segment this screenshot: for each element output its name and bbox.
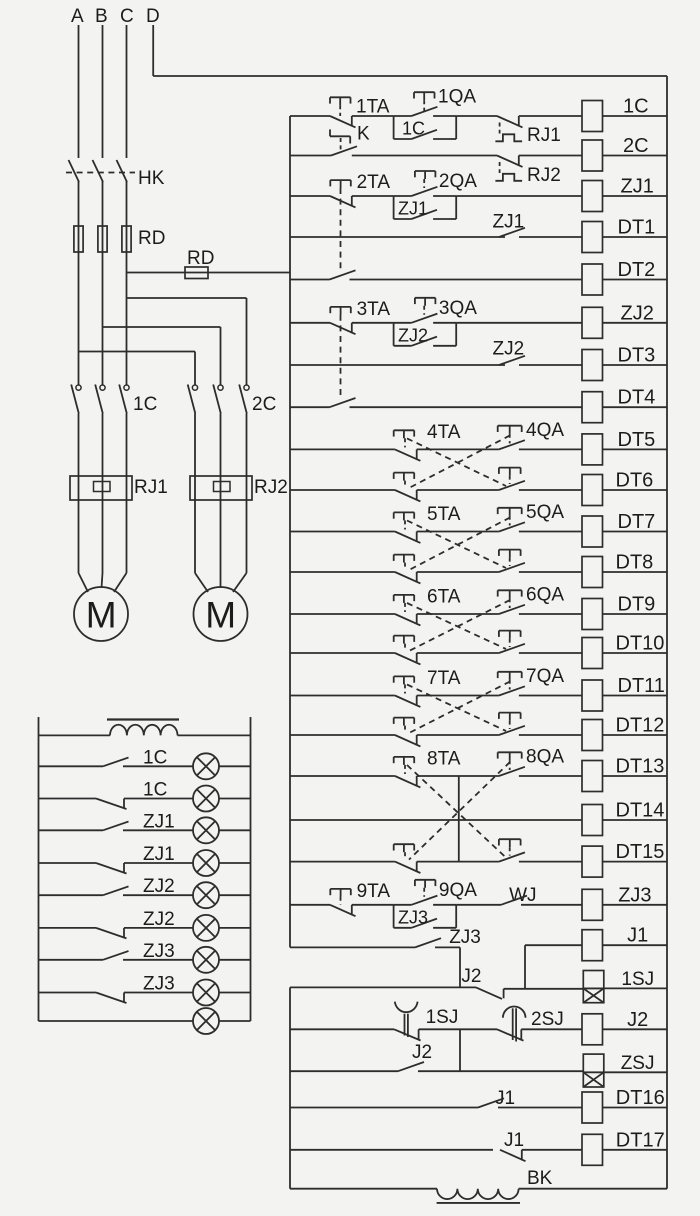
svg-text:RJ1: RJ1 xyxy=(527,125,561,146)
mechanical cross link (dashed X) xyxy=(407,435,510,488)
coil DT6 xyxy=(582,475,603,506)
coil DT17 xyxy=(582,1134,603,1165)
coil ZSJ (time relay) xyxy=(583,1054,604,1072)
svg-text:2TA: 2TA xyxy=(357,172,391,193)
svg-text:1C: 1C xyxy=(133,394,157,415)
svg-text:RJ1: RJ1 xyxy=(134,477,168,498)
inductor core bar xyxy=(107,718,179,720)
svg-text:ZJ2: ZJ2 xyxy=(143,909,175,930)
contact 5QA (NO) xyxy=(499,522,525,531)
contact 3TA (NO, linked) xyxy=(330,398,356,407)
wire coil 2C to right bus xyxy=(603,155,668,157)
wire coil 1C to right bus xyxy=(603,115,668,117)
operator head (linked to 4QA) xyxy=(394,473,415,488)
contact 6TA (NO, linked) xyxy=(499,644,525,653)
svg-text:J1: J1 xyxy=(627,925,648,947)
wire phase B drop xyxy=(102,25,104,158)
contact 6TA (NC) xyxy=(395,614,421,625)
wire between contacts xyxy=(417,775,499,777)
wire lamp to right bus xyxy=(219,829,251,831)
wire rung from bus (6TA row) xyxy=(290,613,395,615)
svg-text:1C: 1C xyxy=(402,119,425,139)
wire lamp to right bus xyxy=(219,992,251,994)
contact 3TA (NC) xyxy=(330,323,356,334)
wire coil 1SJ to right bus xyxy=(604,987,667,989)
svg-text:RD: RD xyxy=(187,248,214,269)
svg-text:J1: J1 xyxy=(495,1088,515,1109)
mechanical cross link (dashed X) xyxy=(407,762,510,860)
wire phase A drop xyxy=(78,25,80,158)
svg-text:J2: J2 xyxy=(627,1009,648,1031)
wire phase C drop xyxy=(126,25,128,158)
contact 8QA (NO) xyxy=(499,767,525,776)
svg-text:C: C xyxy=(120,6,134,27)
wire rung from bus (6QA linked row) xyxy=(290,652,395,654)
wire to coil xyxy=(519,695,582,697)
wire J2 contact to coil ZSJ xyxy=(418,1070,583,1072)
lamp panel bottom wire xyxy=(39,1020,194,1022)
svg-text:ZJ1: ZJ1 xyxy=(143,811,175,832)
contact 2TA (NC) xyxy=(330,196,356,207)
svg-text:2C: 2C xyxy=(623,135,649,157)
contact QA (NO) on main path xyxy=(394,314,457,323)
wire sub ladder bottom xyxy=(290,1188,437,1190)
lamp panel left bus xyxy=(38,717,40,1021)
operator head (linked to 8QA) xyxy=(394,844,415,859)
svg-text:ZJ2: ZJ2 xyxy=(143,876,175,897)
svg-text:ZJ3: ZJ3 xyxy=(143,941,175,962)
svg-text:ZSJ: ZSJ xyxy=(621,1053,655,1074)
operator head 3QA xyxy=(415,298,436,315)
contact 7TA (NO, linked) xyxy=(499,726,525,735)
wire rung from bus (7TA row) xyxy=(290,695,395,697)
wire parallel group verticals xyxy=(394,196,457,219)
svg-text:1SJ: 1SJ xyxy=(621,969,654,990)
operator head 8TA xyxy=(394,757,415,774)
svg-text:J1: J1 xyxy=(504,1130,524,1151)
operator head 9TA xyxy=(330,889,351,897)
wire coil DT14 to right bus xyxy=(603,819,668,821)
wire coil DT1 to right bus xyxy=(603,236,668,238)
mechanical cross link (dashed X) xyxy=(407,682,510,734)
wire to coil ZJ2 xyxy=(456,322,582,324)
contact 7QA (NO) xyxy=(499,686,525,695)
wire B below HK xyxy=(102,181,104,385)
svg-text:5QA: 5QA xyxy=(526,502,564,523)
svg-text:9QA: 9QA xyxy=(439,880,477,901)
coil DT7 xyxy=(582,516,603,547)
wire to coil DT4 xyxy=(350,406,583,408)
operator head 7QA xyxy=(498,672,522,690)
operator head 5QA xyxy=(498,508,522,526)
lamp row 5: contact ZJ2 (NO) xyxy=(39,886,194,895)
coil DT3 xyxy=(582,350,603,381)
wire rung from bus (4QA linked row) xyxy=(290,489,395,491)
svg-text:8TA: 8TA xyxy=(427,749,461,770)
lamp row 3: contact ZJ1 (NO) xyxy=(39,822,194,831)
svg-text:DT1: DT1 xyxy=(618,217,656,239)
svg-text:9TA: 9TA xyxy=(357,881,391,902)
inductor (ballast) on lamp panel xyxy=(110,725,178,736)
wire to coil xyxy=(519,489,582,491)
lamp 4 xyxy=(193,850,219,876)
wire K to RJ2 xyxy=(352,155,497,157)
wire rung DT3 from bus xyxy=(290,364,505,366)
svg-text:DT15: DT15 xyxy=(616,841,665,863)
svg-text:HK: HK xyxy=(138,168,165,189)
fuse RD phase C xyxy=(122,226,131,252)
wire lamp to right bus xyxy=(219,894,251,896)
wire parallel group verticals xyxy=(394,905,457,928)
contact ZJ3 (NO, self hold branch) xyxy=(394,919,457,928)
wire C below HK xyxy=(126,181,128,385)
operator head (linked to 4TA) xyxy=(499,468,521,484)
motor M1 xyxy=(74,587,128,641)
operator head 3TA xyxy=(330,307,351,315)
lamp row 2: contact 1C (NC) xyxy=(39,799,194,810)
wire between contacts xyxy=(417,531,499,533)
operator link 3TA (dashed) xyxy=(340,315,342,398)
wires 2C branch to motor xyxy=(195,414,247,574)
svg-text:ZJ3: ZJ3 xyxy=(618,884,651,906)
svg-text:BK: BK xyxy=(527,1168,553,1189)
svg-text:ZJ2: ZJ2 xyxy=(621,302,654,324)
svg-text:2C: 2C xyxy=(252,394,276,415)
svg-text:1C: 1C xyxy=(143,747,167,768)
wire coil ZJ3 to right bus xyxy=(603,904,668,906)
svg-text:3QA: 3QA xyxy=(439,298,477,319)
svg-text:RD: RD xyxy=(138,228,165,249)
svg-text:1SJ: 1SJ xyxy=(426,1007,459,1028)
wire to coil xyxy=(519,775,582,777)
switch HK mechanical link (dashed) xyxy=(66,172,135,174)
wire between contacts xyxy=(417,734,499,736)
operator head 7TA xyxy=(394,676,415,693)
svg-text:WJ: WJ xyxy=(509,885,536,906)
coil DT12 xyxy=(582,720,603,751)
wire A tap to 2C branch xyxy=(79,351,196,353)
svg-text:DT4: DT4 xyxy=(618,387,656,409)
svg-text:RJ2: RJ2 xyxy=(527,165,561,186)
wire rung 2C from bus xyxy=(290,155,331,157)
svg-text:1TA: 1TA xyxy=(356,97,390,118)
wire 2TA to parallel group xyxy=(352,195,394,197)
svg-text:1C: 1C xyxy=(143,780,167,801)
wire riser to coil J1 xyxy=(524,945,526,989)
operator head 4TA xyxy=(394,430,415,447)
wire sub ladder top xyxy=(290,986,476,988)
svg-text:A: A xyxy=(71,6,84,27)
wire coil ZJ2 to right bus xyxy=(603,322,668,324)
wire between contacts xyxy=(417,448,499,450)
contact 4QA (NC, linked) xyxy=(395,490,421,501)
wire rung DT14 from bus xyxy=(290,819,582,821)
operator head 8QA xyxy=(498,752,522,770)
contact WJ (NO) xyxy=(501,896,527,905)
operator head (linked to 5TA) xyxy=(499,550,521,566)
contact 7QA (NC, linked) xyxy=(395,735,421,746)
wire coil DT7 to right bus xyxy=(603,531,668,533)
svg-text:ZJ3: ZJ3 xyxy=(398,907,428,927)
wire rung from bus (4TA row) xyxy=(290,448,395,450)
wire coil DT6 to right bus xyxy=(603,489,668,491)
coil ZJ1 xyxy=(582,181,603,212)
svg-text:ZJ3: ZJ3 xyxy=(449,927,481,948)
wire rung DT4 from bus xyxy=(290,406,330,408)
lamp 3 xyxy=(193,817,219,843)
wire rung J2 from sub bus xyxy=(290,1028,394,1030)
wire coil J2 to right bus xyxy=(603,1028,668,1030)
wire between contacts xyxy=(417,489,499,491)
wire rung ZJ3 from bus xyxy=(290,904,330,906)
lamp 1 xyxy=(193,753,219,779)
transformer BK core bar xyxy=(437,1202,520,1204)
fuse RD phase B xyxy=(98,226,107,252)
coil DT1 xyxy=(582,222,603,253)
contact 2SJ (delayed) xyxy=(497,1007,526,1042)
wire between contacts xyxy=(417,695,499,697)
svg-text:5TA: 5TA xyxy=(427,504,461,525)
wire rung from bus (7QA linked row) xyxy=(290,734,395,736)
operator head 6QA xyxy=(498,590,522,608)
wire coil DT11 to right bus xyxy=(603,695,668,697)
wire parallel group verticals xyxy=(394,323,457,346)
wire to coil DT1 xyxy=(519,236,582,238)
wire coil DT12 to right bus xyxy=(603,734,668,736)
motor M2 leads xyxy=(195,573,208,592)
coil DT5 xyxy=(582,434,603,465)
operator head (linked to 7QA) xyxy=(394,718,415,733)
contact QA (NO) on main path xyxy=(394,187,457,196)
contact 6QA (NC, linked) xyxy=(395,653,421,664)
svg-text:6TA: 6TA xyxy=(427,587,461,608)
svg-text:DT6: DT6 xyxy=(616,470,654,492)
wire lamp to right bus xyxy=(219,927,251,929)
svg-text:2QA: 2QA xyxy=(439,171,477,192)
operator link 9TA (dashed) xyxy=(340,897,342,905)
wire to coil xyxy=(519,652,582,654)
svg-text:RJ2: RJ2 xyxy=(254,477,288,498)
svg-text:M: M xyxy=(205,595,236,636)
wire rung from bus (8QA linked row) xyxy=(290,861,395,863)
contact 6QA (NO) xyxy=(499,605,525,614)
coil DT16 xyxy=(582,1092,603,1123)
svg-text:DT12: DT12 xyxy=(616,715,665,737)
svg-text:DT7: DT7 xyxy=(618,511,656,533)
contact J2 (NO) xyxy=(398,1062,424,1071)
coil DT4 xyxy=(582,392,603,423)
wire between contacts xyxy=(417,861,499,863)
contact 1C (NO, self hold branch) xyxy=(394,130,457,139)
contact 5QA (NC, linked) xyxy=(395,572,421,583)
wire to coil ZJ1 xyxy=(456,195,582,197)
coil DT2 xyxy=(582,264,603,295)
wire link rung DT13 to DT15 xyxy=(458,776,460,862)
coil ZJ3 xyxy=(582,889,603,920)
contact RJ1 (NC thermal) xyxy=(495,116,522,141)
coil DT15 xyxy=(582,846,603,877)
wire WJ to coil ZJ3 xyxy=(521,904,582,906)
coil 1C xyxy=(582,101,603,132)
contact QA (NO) on main path xyxy=(394,107,457,116)
coil DT9 xyxy=(582,599,603,630)
svg-text:ZJ2: ZJ2 xyxy=(398,325,428,345)
operator head 1TA xyxy=(330,97,351,116)
contact 8QA (NC, linked) xyxy=(395,862,421,873)
lamp 7 xyxy=(193,947,219,973)
wire rung DT2 from bus xyxy=(290,279,330,281)
wire coil J1 to right bus xyxy=(603,944,668,946)
svg-text:ZJ1: ZJ1 xyxy=(143,844,175,865)
svg-text:B: B xyxy=(95,6,108,27)
coil 2C xyxy=(582,140,603,171)
lamp row 6: contact ZJ2 (NC) xyxy=(39,928,194,939)
operator head 1QA xyxy=(414,92,435,111)
wire coil DT8 to right bus xyxy=(603,571,668,573)
coil DT10 xyxy=(582,638,603,669)
wire to coil xyxy=(519,448,582,450)
svg-text:4QA: 4QA xyxy=(526,420,564,441)
wire parallel group verticals xyxy=(394,116,457,139)
contact QA (NO) on main path xyxy=(394,896,457,905)
wire D to right bus (top control wire) xyxy=(153,75,667,77)
wires 1C branch to motor xyxy=(79,414,127,574)
wire coil DT2 to right bus xyxy=(603,279,668,281)
contact 7TA (NC) xyxy=(395,696,421,707)
wire to coil xyxy=(519,531,582,533)
contact ZJ3 (NO) xyxy=(415,938,441,947)
operator head K (two position) xyxy=(330,129,350,152)
svg-text:7TA: 7TA xyxy=(427,668,461,689)
wire coil DT15 to right bus xyxy=(603,861,668,863)
switch HK blades xyxy=(69,160,128,182)
wire rung ZJ1 from bus xyxy=(290,195,330,197)
lamp 8 xyxy=(193,980,219,1006)
svg-text:1C: 1C xyxy=(623,96,649,118)
svg-text:DT11: DT11 xyxy=(618,675,665,697)
wire coil DT10 to right bus xyxy=(603,652,668,654)
coil DT11 xyxy=(582,680,603,711)
svg-text:4TA: 4TA xyxy=(427,422,461,443)
contact 4QA (NO) xyxy=(499,440,525,449)
wire coil ZJ1 to right bus xyxy=(603,195,668,197)
wire coil ZSJ to right bus xyxy=(604,1071,667,1073)
wire drop J2 rung to ZSJ rung xyxy=(459,1029,461,1071)
coil ZJ2 xyxy=(582,307,603,338)
coil DT8 xyxy=(582,557,603,588)
wire ZJ3 contact to drop xyxy=(435,946,460,948)
contactor 1C main contacts xyxy=(71,385,129,414)
lamp panel top wire xyxy=(39,734,111,736)
fuse RD control (horizontal) xyxy=(185,267,208,279)
wire 9TA to parallel group xyxy=(352,904,394,906)
svg-text:DT9: DT9 xyxy=(618,594,656,616)
contact 8TA (NC) xyxy=(395,776,421,787)
contact J2 (NC) xyxy=(476,987,504,999)
contact 1SJ (delayed) xyxy=(394,1002,421,1041)
wire RJ2 to coil 2C xyxy=(519,155,582,157)
wire lamp to right bus xyxy=(219,959,251,961)
lamp 5 xyxy=(193,882,219,908)
svg-text:DT16: DT16 xyxy=(616,1087,665,1109)
contact 8TA (NO, linked) xyxy=(499,852,525,861)
svg-text:M: M xyxy=(86,595,117,636)
contact 5TA (NO, linked) xyxy=(499,563,525,572)
wire RJ1 to coil 1C xyxy=(519,115,582,117)
operator head 2QA xyxy=(415,171,436,188)
control sub left bus xyxy=(289,987,291,1188)
operator head (linked to 5QA) xyxy=(394,555,415,570)
svg-text:ZJ3: ZJ3 xyxy=(143,974,175,995)
wire between contacts xyxy=(417,613,499,615)
operator head (linked to 6QA) xyxy=(394,636,415,651)
wire rung 1C from bus xyxy=(290,115,330,117)
wire 2SJ to coil J2 xyxy=(521,1028,582,1030)
wire rung from bus (8TA row) xyxy=(290,775,395,777)
coil J2 xyxy=(582,1014,603,1045)
contact RJ2 (NC thermal) xyxy=(495,156,522,181)
svg-text:ZJ1: ZJ1 xyxy=(621,176,654,198)
svg-text:K: K xyxy=(357,124,370,145)
contact 1TA (NC) xyxy=(330,116,356,127)
svg-text:ZJ1: ZJ1 xyxy=(398,199,428,219)
wire coil DT17 to right bus xyxy=(603,1149,668,1151)
svg-text:J2: J2 xyxy=(461,966,481,987)
coil DT14 xyxy=(582,805,603,836)
wire rung ZJ2 from bus xyxy=(290,322,330,324)
operator head 2TA xyxy=(330,180,351,188)
wire to coil DT3 xyxy=(519,364,582,366)
wire to coil xyxy=(519,734,582,736)
operator head (linked to 8TA) xyxy=(499,839,521,855)
transformer BK winding xyxy=(437,1189,519,1199)
contact ZJ1 (NO) xyxy=(499,228,525,237)
wire lamp to right bus xyxy=(219,798,251,800)
contact 4TA (NC) xyxy=(395,449,421,460)
wire 1TA to parallel group xyxy=(352,115,394,117)
lamp 9 (on bottom wire) xyxy=(193,1008,219,1034)
wire rung from bus (5QA linked row) xyxy=(290,571,395,573)
wire coil DT13 to right bus xyxy=(603,775,668,777)
svg-text:6QA: 6QA xyxy=(526,585,564,606)
motor M1 leads xyxy=(79,573,89,592)
svg-text:1QA: 1QA xyxy=(438,87,476,108)
operator head (linked to 6TA) xyxy=(499,631,521,647)
lamp row 4: contact ZJ1 (NC) xyxy=(39,863,194,874)
operator head 9QA xyxy=(415,880,436,897)
wire to RJ1 contact xyxy=(456,115,497,117)
operator head 5TA xyxy=(394,512,415,529)
motor M2 xyxy=(194,587,248,641)
wire drop to sub ladder xyxy=(459,947,461,987)
operator link 2TA (dashed) xyxy=(340,188,342,271)
contact ZJ2 (NO, self hold branch) xyxy=(394,337,457,346)
lamp 2 xyxy=(193,786,219,812)
svg-text:DT3: DT3 xyxy=(618,345,656,367)
wire lamp to right bus xyxy=(219,862,251,864)
operator head (linked to 7TA) xyxy=(499,713,521,729)
mechanical cross link (dashed X) xyxy=(407,600,510,651)
wire 1SJ to 2SJ xyxy=(419,1028,497,1030)
wire to coil xyxy=(519,613,582,615)
thermal relay RJ1 heaters xyxy=(70,476,132,500)
coil 1SJ (time relay) xyxy=(583,971,604,989)
fuse RD phase A xyxy=(74,226,83,252)
wire C tap to control bus xyxy=(127,272,291,274)
svg-text:DT5: DT5 xyxy=(618,429,656,451)
wire coil DT3 to right bus xyxy=(603,364,668,366)
wire rung ZSJ from sub bus xyxy=(290,1070,398,1072)
